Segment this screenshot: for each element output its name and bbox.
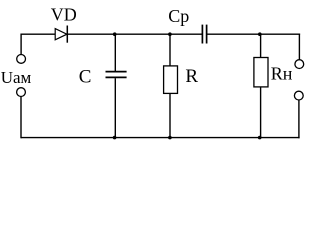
svg-text:Ср: Ср bbox=[168, 6, 189, 26]
node junction R bottom bbox=[168, 136, 172, 140]
wire input top vertical bbox=[20, 34, 22, 55]
wire output bottom vertical bbox=[298, 100, 300, 138]
terminal output top bbox=[295, 60, 304, 69]
svg-text:VD: VD bbox=[51, 4, 77, 24]
capacitor C plates bbox=[106, 72, 127, 78]
terminal input bottom bbox=[17, 88, 26, 97]
diode VD bbox=[55, 26, 67, 43]
resistor Rн bottom lead bbox=[260, 87, 262, 138]
node junction Rн bottom bbox=[258, 136, 262, 140]
node junction Rн top bbox=[258, 32, 262, 36]
node junction C top bbox=[113, 32, 117, 36]
resistor R body bbox=[164, 66, 178, 94]
capacitor C top lead bbox=[114, 34, 116, 71]
node junction R top bbox=[168, 32, 172, 36]
terminal output bottom bbox=[294, 91, 303, 100]
wire bottom rail bbox=[21, 137, 300, 139]
wire top-left: input terminal to diode anode bbox=[21, 33, 55, 35]
resistor Rн top lead bbox=[260, 34, 262, 57]
svg-text:R: R bbox=[185, 66, 198, 87]
svg-text:C: C bbox=[79, 66, 92, 87]
resistor R top lead bbox=[169, 34, 171, 66]
terminal input top bbox=[17, 55, 26, 64]
resistor Rн body bbox=[254, 58, 268, 87]
resistor R bottom lead bbox=[169, 93, 171, 137]
node junction C bottom bbox=[113, 136, 117, 140]
svg-text:Rн: Rн bbox=[271, 63, 293, 83]
capacitor C bottom lead bbox=[114, 78, 116, 137]
wire top rail: Cp right plate to top-right corner bbox=[207, 33, 301, 35]
wire input bottom vertical bbox=[20, 96, 22, 138]
wire output top vertical bbox=[298, 34, 300, 60]
svg-text:Uам: Uам bbox=[1, 68, 32, 87]
wire top rail: diode cathode to Cp left plate bbox=[67, 33, 202, 35]
capacitor Cp plates bbox=[202, 25, 206, 44]
